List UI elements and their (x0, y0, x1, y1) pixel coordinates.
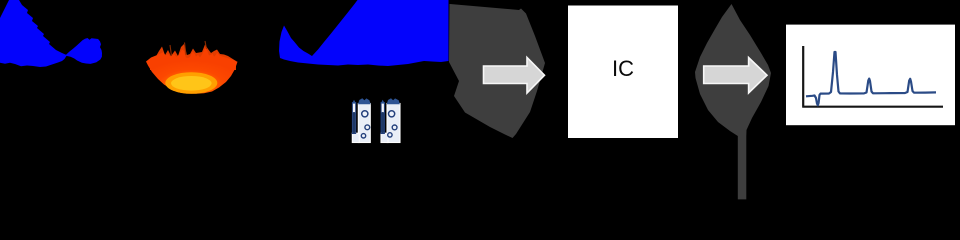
vial 2 cap (387, 98, 400, 104)
flame body (146, 48, 238, 94)
IC box (568, 6, 678, 139)
chromatogram box (786, 25, 955, 126)
arrow 2 (704, 58, 767, 94)
vial 1 inlet tube (352, 100, 356, 134)
arrow 1 (484, 58, 545, 94)
svg-text:IC: IC (612, 56, 634, 81)
vial 1 bubbles (362, 111, 368, 117)
gray blob 2 (leaf with stem) (695, 4, 771, 199)
vial 2 bubbles (389, 111, 395, 117)
vial 1 base strip (352, 133, 359, 142)
absorber vial 1 (352, 98, 371, 142)
flame (combustion) (146, 41, 238, 94)
vial 1 cap (358, 98, 371, 104)
flame orange core ring (165, 72, 217, 94)
vial 2 inlet tube (381, 100, 385, 134)
gray blob 1 (transfer highlight) (449, 4, 545, 138)
chromatogram axes (802, 46, 943, 107)
chromatogram trace (806, 52, 936, 105)
vial 2 body (387, 104, 400, 143)
vial 1 body (358, 104, 370, 143)
flame back spikes (dark red) (150, 44, 236, 70)
absorber vial 2 (381, 98, 400, 142)
flame yellow core (171, 76, 212, 91)
vial 2 base strip (381, 133, 388, 142)
flame spark hairlines (170, 41, 207, 56)
blue marker scribble (furnace tube highlight) (279, 0, 449, 66)
blue marker scribble left (sample highlight) (0, 0, 102, 67)
